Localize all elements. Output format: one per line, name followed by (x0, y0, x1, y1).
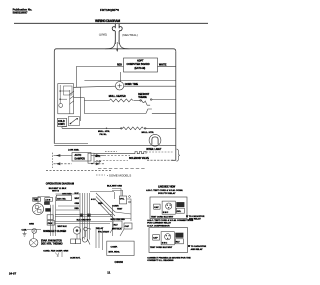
svg-text:RLY: RLY (114, 225, 119, 227)
vertical riser from RED wire (75, 67, 77, 88)
svg-text:S M C: S M C (162, 243, 168, 245)
svg-text:LOW AMB.: LOW AMB. (68, 149, 80, 152)
wire arrow into damper row 1 (54, 155, 73, 157)
compressor shell box (107, 241, 134, 255)
cabinet outline (left edge) (54, 49, 56, 144)
riser to cold control (79, 87, 81, 121)
compressor terminal cell 1 (162, 201, 175, 214)
svg-text:WHITE: WHITE (159, 65, 167, 67)
cabinet outline (right edge) (175, 51, 177, 160)
dashed enclosure left edge (51, 153, 53, 168)
left column verticals (51, 197, 56, 237)
defrost timer mechanism M3 (32, 203, 43, 214)
wire heater to thermostat (133, 99, 141, 101)
svg-text:(LINE): (LINE) (99, 32, 107, 36)
svg-text:FRT18QRF*0: FRT18QRF*0 (100, 8, 119, 12)
svg-text:MTR. WDG.: MTR. WDG. (109, 252, 121, 254)
wire, neutral drop flaring right into cabinet top (119, 40, 129, 49)
svg-text:PTC START: PTC START (98, 230, 110, 233)
dashed wires around solenoid (146, 151, 173, 153)
wire board to defrost timer (119, 72, 121, 82)
svg-text:PN. BL.: PN. BL. (100, 134, 108, 136)
svg-text:A.B.C. TEST CORD & V.O.M. CONN: A.B.C. TEST CORD & V.O.M. CONNECTIONS (147, 219, 194, 222)
svg-text:COMP. TIME: COMP. TIME (125, 84, 139, 86)
auto damper M2 (72, 153, 91, 162)
wire cluster to timer row (74, 86, 81, 88)
svg-text:FOR CURRENT RELAY: FOR CURRENT RELAY (147, 222, 171, 225)
svg-text:WHT BLK: WHT BLK (58, 226, 68, 228)
wires relay cluster (110, 205, 131, 236)
wire ground to right (27, 229, 42, 231)
svg-text:PNK: PNK (48, 223, 53, 225)
svg-text:CONNECT PROBES AS SHOWN FOR TH: CONNECT PROBES AS SHOWN FOR THE (147, 256, 191, 259)
capacitor cell 1 (154, 204, 160, 209)
svg-text:TEST CORD BLK WHT: TEST CORD BLK WHT (151, 217, 174, 219)
svg-text:GRN: GRN (29, 224, 34, 226)
contact dot (106, 128, 108, 130)
title rule (14, 22, 208, 24)
brace to right edge (177, 149, 180, 161)
light switch S2 (59, 104, 63, 108)
riser to heater rows (83, 98, 85, 114)
thermostat coil symbol (82, 237, 87, 242)
svg-text:(NEUTRAL): (NEUTRAL) (122, 33, 137, 37)
svg-text:CAB.: CAB. (22, 229, 28, 232)
label to capacitor 1 (186, 215, 188, 217)
wire arrow row 2 right (91, 163, 104, 165)
svg-text:RED: RED (117, 65, 122, 67)
wire, line drop flaring left into cabinet top (105, 40, 115, 49)
overload terminal circles (129, 196, 131, 198)
dashed feed (105, 150, 117, 152)
svg-text:CONT.: CONT. (58, 124, 65, 126)
svg-text:CORRECT U.L. READING: CORRECT U.L. READING (147, 259, 174, 262)
wire to solenoid coil (94, 153, 135, 155)
svg-text:SOLENOID VALVE: SOLENOID VALVE (129, 157, 149, 160)
svg-text:DEF. HTR. THERMO: DEF. HTR. THERMO (41, 243, 63, 245)
ADC computer board U1 (124, 58, 158, 72)
label SOME MODELS (96, 174, 105, 176)
svg-text:OVL: OVL (120, 198, 125, 200)
svg-text:DAMPER: DAMPER (75, 158, 86, 161)
mullion heater R2 element (123, 127, 144, 130)
dashed wire damper to solenoid row (104, 155, 130, 157)
relay cluster (113, 221, 122, 228)
cabinet outline (top edge) (57, 49, 176, 52)
svg-text:WHT: WHT (75, 198, 80, 200)
ADC board mini box (56, 195, 71, 201)
solenoid valve L1 coil (135, 152, 146, 154)
svg-text:5995218837: 5995218837 (13, 11, 28, 15)
svg-text:MULL. HTR.: MULL. HTR. (98, 131, 110, 133)
capacitor cell 2 (153, 235, 160, 240)
dashed row to solenoid label (96, 160, 128, 162)
wire cold control to mullion row (62, 127, 67, 129)
thermostat terminal circles (140, 100, 142, 102)
light & switch housing (58, 84, 74, 114)
pilot lamp (32, 229, 37, 234)
cam follower dark mark (45, 208, 51, 211)
condenser fan motor M4 (30, 239, 38, 247)
wire second bus (84, 80, 175, 82)
svg-text:INTER. LIGHT: INTER. LIGHT (146, 149, 162, 151)
wire arrow row 2 left (54, 163, 73, 165)
right connector verticals (96, 227, 103, 250)
dashed lower rows (98, 168, 145, 170)
svg-text:11: 11 (107, 270, 110, 274)
svg-text:RLY: RLY (176, 242, 181, 244)
svg-text:RED: RED (75, 208, 80, 210)
wire thermostat to right edge (150, 99, 176, 101)
relay box 2 (149, 228, 188, 253)
wire timer row right (124, 85, 176, 87)
svg-text:THERM.: THERM. (138, 97, 147, 99)
power cord plug, line conductor hook (112, 24, 115, 44)
wire mid bus (84, 113, 145, 115)
relay cells 2 (175, 233, 183, 238)
svg-text:RED: RED (98, 203, 103, 205)
wires left of bundle (56, 194, 81, 210)
wire light row (54, 144, 176, 146)
terminal block A (47, 215, 53, 220)
freezer control switch on mid bus (146, 109, 152, 114)
svg-text:CCW ROT.: CCW ROT. (70, 257, 81, 259)
svg-text:(EATC-M): (EATC-M) (135, 67, 146, 70)
dashed enclosure bottom (46, 170, 112, 172)
horizontal bus wires (55, 213, 112, 215)
svg-text:WHT BLK: WHT BLK (112, 229, 122, 231)
svg-text:OVL: OVL (177, 211, 182, 213)
ground conductor drop with arrowhead (116, 42, 118, 51)
connector block (88, 153, 94, 163)
interior light LP1 (149, 134, 161, 146)
wire RED to board (76, 66, 123, 68)
cam switch box (44, 202, 50, 205)
wire arrow out of damper row 1 (91, 155, 104, 157)
wires overload cluster (112, 189, 131, 215)
svg-text:ORN: ORN (75, 203, 80, 205)
svg-text:COND. FAN COMP. GRN: COND. FAN COMP. GRN (43, 250, 68, 253)
wire into mullion heater (62, 127, 123, 129)
svg-text:DEFROST: DEFROST (138, 94, 150, 96)
svg-text:OPERATION DIAGRAM: OPERATION DIAGRAM (46, 182, 74, 186)
svg-text:BLK-WHT ORN: BLK-WHT ORN (107, 185, 122, 187)
svg-text:TO CAPACITOR: TO CAPACITOR (191, 245, 207, 248)
wire mullion heater to right edge (144, 127, 176, 129)
arrow mark (95, 160, 101, 162)
wire cluster second tap (74, 97, 85, 99)
label to capacitor 2 (188, 245, 190, 247)
svg-text:COMPUTER BOARD: COMPUTER BOARD (127, 63, 150, 66)
svg-text:NORMALLY CLOSED: NORMALLY CLOSED (43, 230, 66, 233)
svg-text:24-97: 24-97 (9, 272, 17, 276)
svg-text:S M C: S M C (163, 212, 169, 214)
svg-text:TMR: TMR (33, 200, 38, 202)
svg-text:EVAP. FAN MOTOR: EVAP. FAN MOTOR (41, 239, 62, 242)
svg-text:WTR.: WTR. (95, 156, 101, 158)
svg-text:TEST: TEST (117, 208, 123, 210)
svg-text:AND RELAY: AND RELAY (191, 248, 204, 251)
defrost limit switch (84, 227, 88, 231)
svg-text:& S.P. COMPRESSOR: & S.P. COMPRESSOR (147, 225, 170, 227)
svg-text:CAP: CAP (153, 237, 158, 240)
cluster inner box (64, 86, 73, 95)
svg-text:TEST CORD BLK WHT: TEST CORD BLK WHT (150, 247, 173, 249)
terminal boxes row 2 (71, 239, 76, 244)
overload protector OL (119, 196, 126, 204)
svg-text:ADC BD.: ADC BD. (57, 197, 67, 200)
power cord plug, neutral conductor hook (119, 24, 122, 44)
terminal block B (47, 221, 54, 226)
svg-text:TO CAPACITOR: TO CAPACITOR (189, 215, 205, 218)
svg-text:• SOME MODELS: • SOME MODELS (107, 174, 131, 178)
connector stubs between rows (34, 231, 86, 239)
svg-text:COMP.: COMP. (111, 247, 118, 249)
compressor terminal cell 2 (161, 232, 174, 245)
wire into defrost heater (84, 99, 109, 101)
internal vertical (69, 90, 71, 114)
svg-text:BLK ORN RED: BLK ORN RED (111, 219, 126, 221)
wire timer row left (74, 86, 116, 87)
svg-text:COMP.: COMP. (112, 206, 119, 208)
wire bundle verticals (79, 193, 81, 240)
defrost timer M1 (115, 82, 123, 90)
wire timer to column (38, 197, 50, 204)
cold control S3 (58, 118, 67, 126)
svg-text:C0040: C0040 (115, 260, 124, 264)
svg-text:A.B.C. TEST CORD & V.O.M. CONN: A.B.C. TEST CORD & V.O.M. CONN. (146, 189, 183, 192)
bus junction blocks (80, 214, 83, 217)
cabinet outline (bottom right corner stub) (172, 159, 176, 161)
defrost heater R1 element (109, 99, 132, 102)
terminal box 489 (45, 198, 53, 202)
svg-text:4 8 9: 4 8 9 (45, 199, 51, 202)
svg-text:MULL. HEATER: MULL. HEATER (109, 95, 126, 98)
evap fan motor (73, 227, 80, 234)
compressor shell outline wires (90, 192, 115, 221)
svg-text:ADPT: ADPT (137, 59, 144, 62)
relay box 1 (150, 197, 187, 219)
svg-text:FOR PTC RELAY: FOR PTC RELAY (158, 192, 176, 195)
internal wire with junction dots (59, 85, 61, 104)
svg-text:WHT N: WHT N (52, 191, 59, 193)
cold control contact box (68, 117, 79, 126)
svg-text:MULL. HTR.: MULL. HTR. (142, 132, 155, 134)
defrost thermostat S1 (142, 100, 151, 105)
timer motor label box (33, 198, 41, 202)
svg-text:BLK ORN WHT: BLK ORN WHT (77, 219, 92, 221)
svg-text:LINESIDE VIEW: LINESIDE VIEW (158, 186, 176, 188)
mullion heater terminal circles (120, 127, 122, 129)
wire upper light feed (54, 143, 88, 145)
door switch contacts (69, 91, 74, 104)
svg-text:COLD: COLD (58, 121, 65, 123)
svg-text:WIRING DIAGRAM: WIRING DIAGRAM (95, 19, 120, 23)
svg-text:CAP: CAP (125, 225, 130, 228)
relay cells 1 (176, 202, 184, 207)
svg-text:CAP: CAP (154, 206, 159, 209)
wire WHITE from board to right edge (158, 65, 176, 67)
